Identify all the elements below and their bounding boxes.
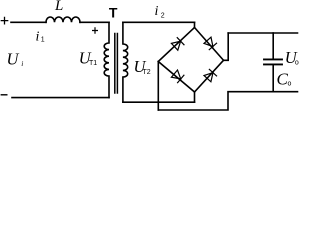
diode D2 top-right arm [204,37,217,50]
bridge edge top-right [195,28,224,61]
diode D4 bottom-right arm [204,69,217,82]
wire bridge top stem [194,22,196,27]
wire bottom-left [12,97,109,99]
svg-text:o: o [288,80,292,87]
wire bridge right riser [224,33,229,60]
bridge edge top-left [158,28,194,62]
wire secondary top to bridge [123,21,195,23]
transformer core line 2 [116,34,118,94]
capacitor Co plates [264,59,282,64]
wire bridge left lead down [157,62,159,111]
svg-text:i: i [21,59,23,68]
input - terminal [1,94,7,96]
inductor L [46,17,80,22]
diode D3 bottom-left arm [171,70,184,83]
wire dc plus top run [228,32,297,34]
svg-text:T: T [109,4,118,20]
transformer primary + polarity [92,27,98,34]
wire top-left segment [11,21,46,23]
svg-text:1: 1 [41,37,45,44]
svg-text:i: i [36,30,40,45]
wire dc minus bottom run [158,92,297,110]
transformer core line 1 [114,34,116,94]
svg-text:i: i [155,4,159,19]
diode D1 top-left arm [171,37,184,50]
wire inductor to transformer [80,21,109,23]
svg-text:T1: T1 [89,60,97,67]
wire secondary bottom to bridge [123,101,195,103]
svg-text:2: 2 [161,12,165,19]
bridge edge bottom-left [158,62,194,93]
input + terminal [1,17,7,23]
svg-text:o: o [295,60,299,67]
svg-text:L: L [54,0,63,14]
wire bridge bottom stem [194,92,196,102]
bridge edge bottom-right [195,60,224,92]
svg-text:U: U [7,50,20,69]
capacitor Co bottom lead [272,65,274,91]
capacitor Co top lead [272,33,274,58]
svg-text:T2: T2 [143,69,151,76]
transformer T secondary winding [123,22,128,102]
transformer T primary winding [104,22,109,97]
